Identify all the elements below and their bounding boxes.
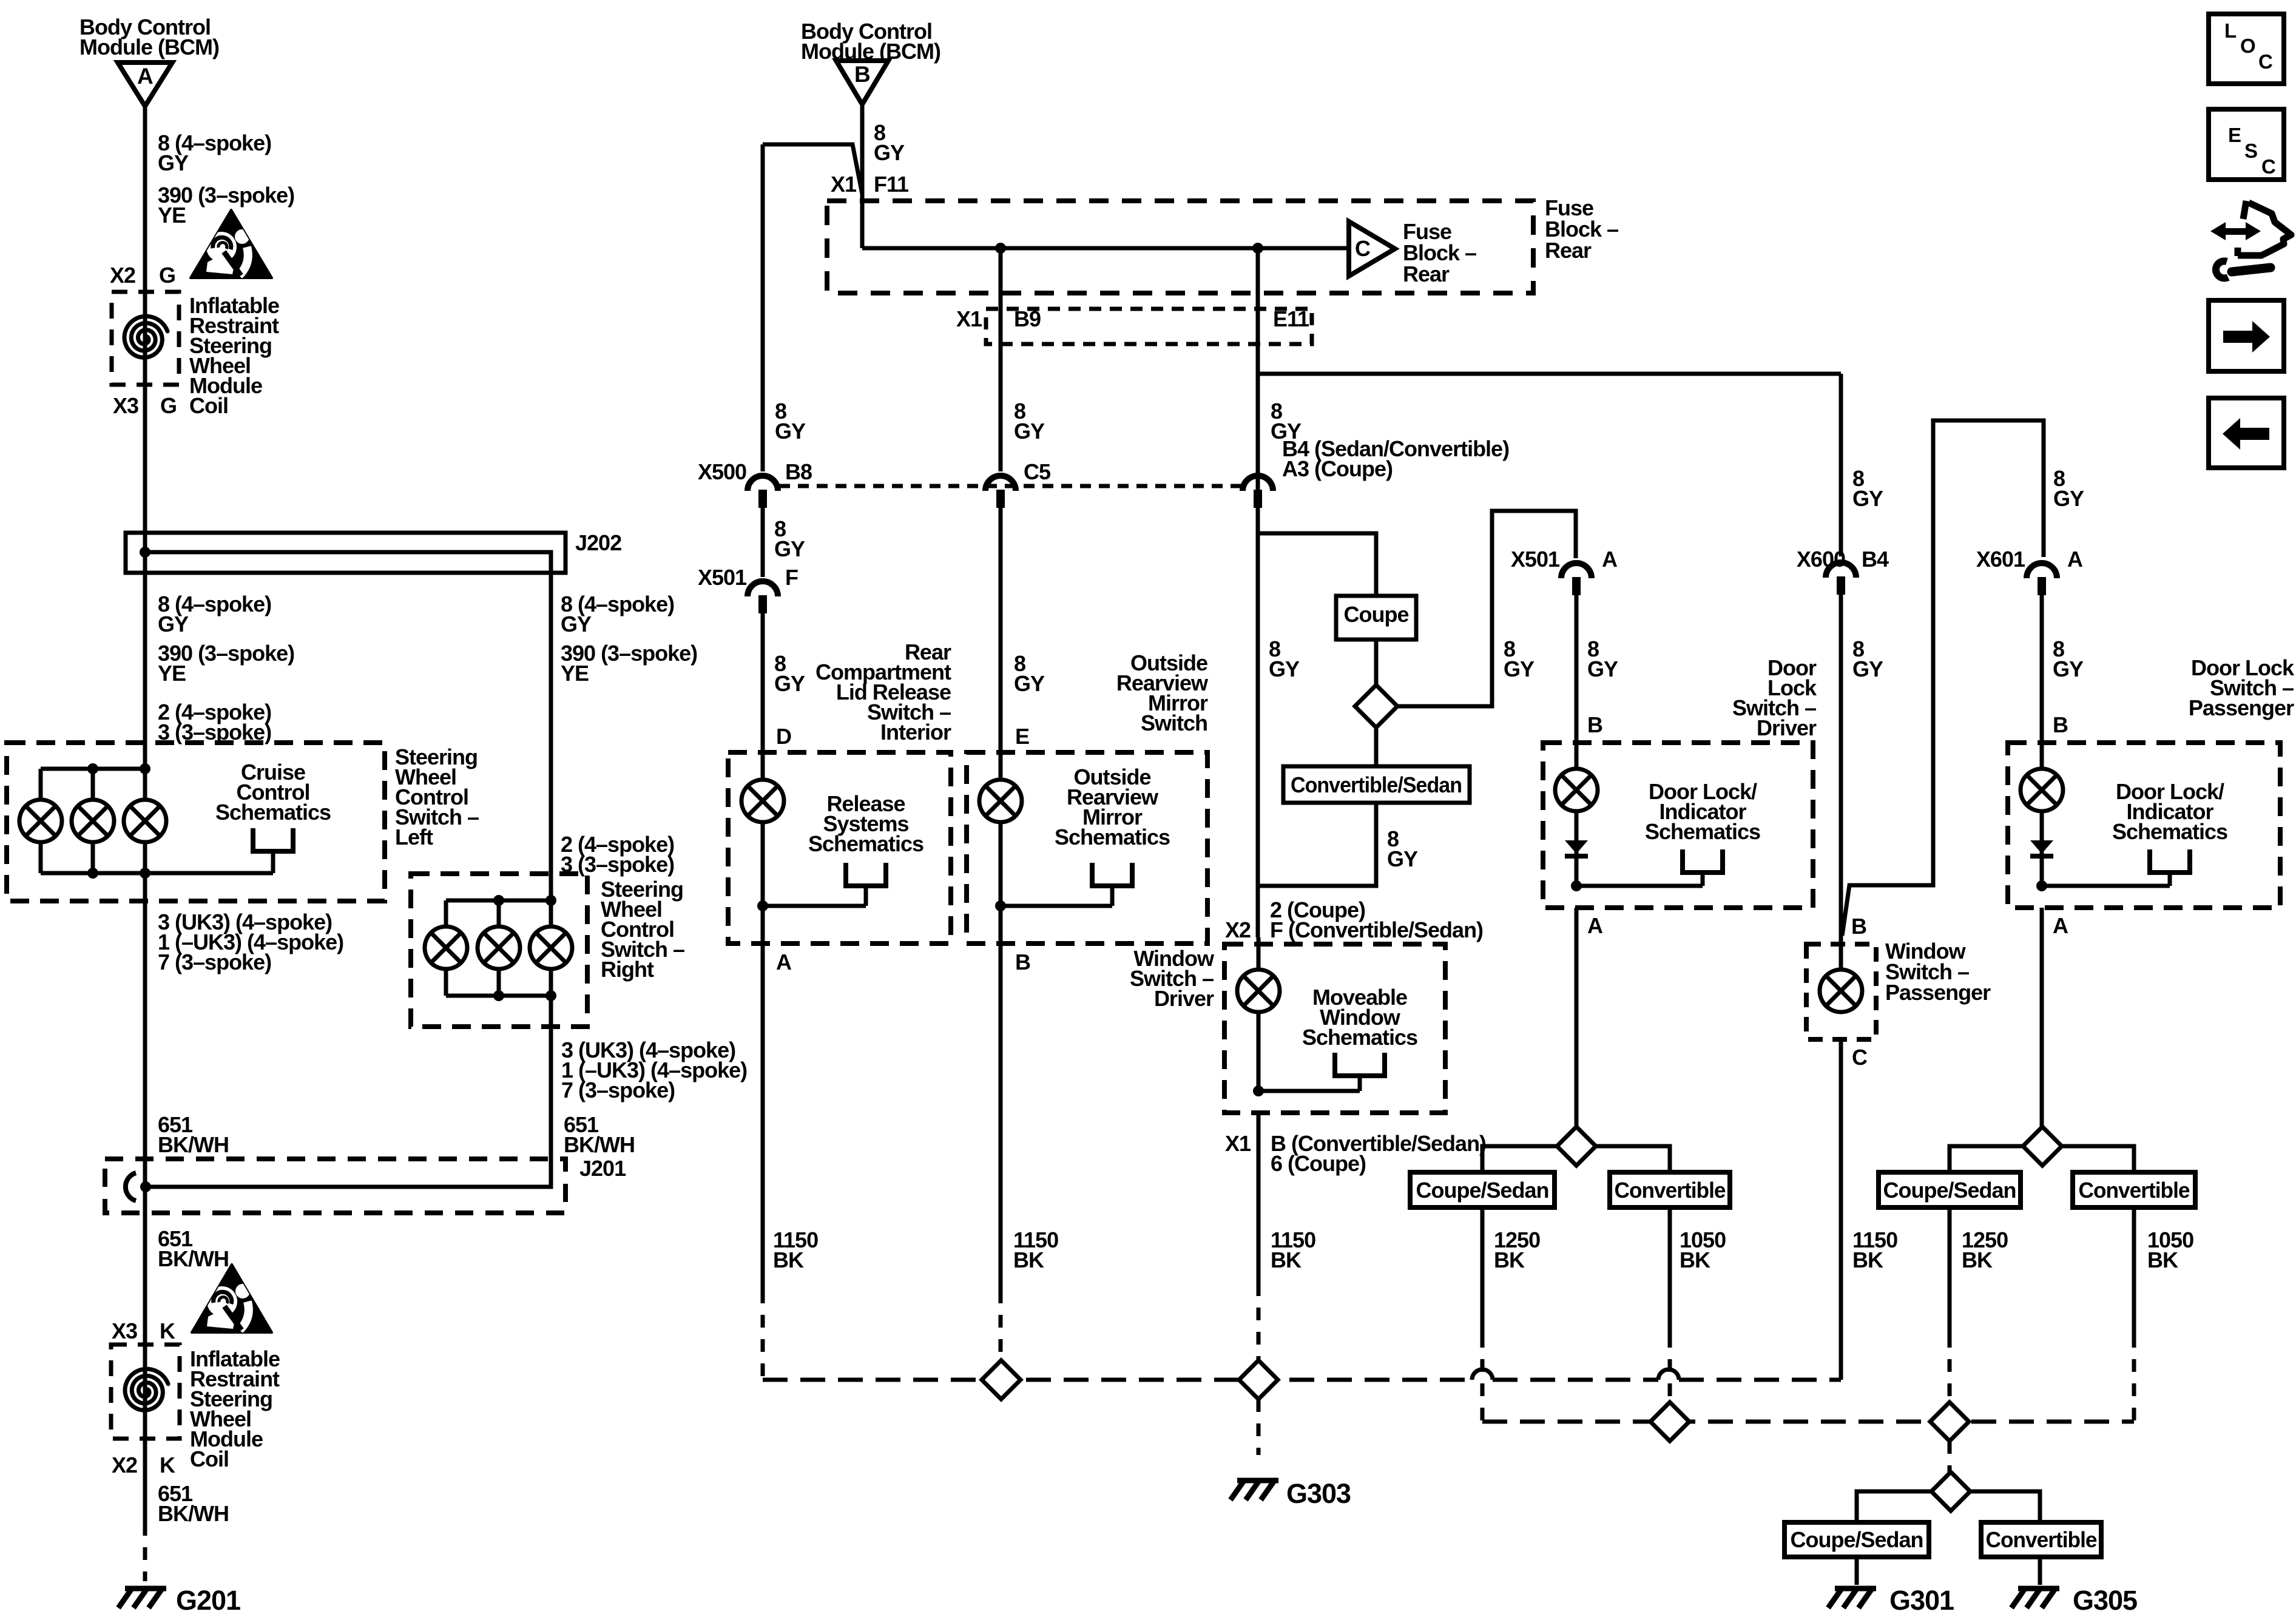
svg-text:X500: X500 <box>698 459 746 484</box>
svg-text:BK: BK <box>2147 1247 2178 1272</box>
svg-text:7 (3–spoke): 7 (3–spoke) <box>158 950 271 974</box>
svg-text:C: C <box>1355 236 1371 261</box>
svg-text:YE: YE <box>158 661 186 686</box>
svg-text:Rear: Rear <box>1545 238 1592 263</box>
svg-text:Coupe/Sedan: Coupe/Sedan <box>1883 1178 2016 1203</box>
svg-text:C: C <box>1852 1045 1868 1070</box>
svg-text:BK/WH: BK/WH <box>158 1501 229 1526</box>
svg-text:BK/WH: BK/WH <box>158 1132 229 1157</box>
svg-text:Schematics: Schematics <box>1055 825 1170 849</box>
svg-text:Coupe/Sedan: Coupe/Sedan <box>1790 1527 1923 1552</box>
svg-text:GY: GY <box>1852 657 1883 681</box>
svg-text:K: K <box>160 1453 175 1477</box>
svg-text:GY: GY <box>2053 657 2084 681</box>
svg-text:B9: B9 <box>1014 306 1041 331</box>
svg-text:Convertible/Sedan: Convertible/Sedan <box>1291 772 1462 797</box>
svg-text:GY: GY <box>774 536 805 561</box>
svg-text:X501: X501 <box>698 565 747 590</box>
svg-text:GY: GY <box>1852 486 1883 511</box>
svg-text:F11: F11 <box>874 172 909 197</box>
svg-text:GY: GY <box>1504 657 1535 681</box>
svg-text:G305: G305 <box>2073 1585 2137 1616</box>
svg-text:Coil: Coil <box>189 393 228 418</box>
svg-text:X2: X2 <box>1225 917 1251 942</box>
svg-text:BK: BK <box>1494 1247 1525 1272</box>
svg-text:BK: BK <box>1962 1247 1993 1272</box>
svg-text:GY: GY <box>874 140 905 165</box>
svg-text:B: B <box>1851 914 1866 939</box>
svg-text:BK: BK <box>1013 1247 1044 1272</box>
svg-text:X1: X1 <box>1225 1131 1251 1156</box>
svg-text:L: L <box>2224 19 2237 42</box>
svg-text:G303: G303 <box>1286 1478 1351 1509</box>
svg-text:G201: G201 <box>176 1585 240 1616</box>
svg-text:A3 (Coupe): A3 (Coupe) <box>1282 456 1393 481</box>
svg-text:B: B <box>1587 712 1602 737</box>
svg-text:X1: X1 <box>831 172 857 197</box>
svg-text:C: C <box>2258 50 2272 73</box>
svg-text:BK/WH: BK/WH <box>158 1246 229 1271</box>
svg-text:A: A <box>776 950 792 974</box>
svg-text:B: B <box>854 62 870 87</box>
svg-text:Interior: Interior <box>880 720 951 744</box>
svg-text:X3: X3 <box>113 393 138 418</box>
svg-text:Schematics: Schematics <box>1302 1025 1417 1050</box>
svg-text:GY: GY <box>1387 846 1418 871</box>
svg-text:BK: BK <box>1271 1247 1302 1272</box>
svg-text:B8: B8 <box>785 459 812 484</box>
svg-text:BK: BK <box>1852 1247 1883 1272</box>
svg-text:Schematics: Schematics <box>2112 819 2227 844</box>
svg-text:A: A <box>1602 547 1618 572</box>
svg-text:G301: G301 <box>1889 1585 1954 1616</box>
svg-text:A: A <box>137 64 153 89</box>
svg-text:Convertible: Convertible <box>1615 1178 1726 1203</box>
svg-text:Driver: Driver <box>1757 715 1817 740</box>
svg-text:K: K <box>160 1318 175 1343</box>
svg-text:6 (Coupe): 6 (Coupe) <box>1271 1151 1366 1176</box>
svg-text:F: F <box>785 565 798 590</box>
svg-text:BK: BK <box>1680 1247 1710 1272</box>
svg-text:F (Convertible/Sedan): F (Convertible/Sedan) <box>1270 917 1483 942</box>
svg-text:X3: X3 <box>112 1318 137 1343</box>
svg-text:Rear: Rear <box>1403 262 1450 286</box>
svg-text:Switch: Switch <box>1141 711 1207 735</box>
svg-text:A: A <box>2067 547 2083 572</box>
svg-text:E: E <box>1015 724 1029 749</box>
svg-text:Passenger: Passenger <box>1885 980 1991 1005</box>
svg-text:X2: X2 <box>110 263 135 288</box>
svg-text:GY: GY <box>158 612 189 636</box>
svg-text:YE: YE <box>158 203 186 228</box>
svg-text:GY: GY <box>1587 657 1618 681</box>
svg-text:7 (3–spoke): 7 (3–spoke) <box>561 1078 675 1102</box>
svg-text:D: D <box>776 724 791 749</box>
svg-text:GY: GY <box>774 671 805 696</box>
svg-text:GY: GY <box>1269 657 1300 681</box>
svg-text:Coupe: Coupe <box>1344 602 1409 627</box>
svg-text:Schematics: Schematics <box>215 800 331 825</box>
svg-text:Convertible: Convertible <box>2079 1178 2190 1203</box>
svg-text:Convertible: Convertible <box>1986 1527 2097 1552</box>
svg-text:BK: BK <box>773 1247 804 1272</box>
svg-text:Schematics: Schematics <box>1645 819 1760 844</box>
svg-text:Left: Left <box>395 825 433 849</box>
svg-text:Coupe/Sedan: Coupe/Sedan <box>1416 1178 1548 1203</box>
svg-text:C5: C5 <box>1024 459 1051 484</box>
svg-text:J202: J202 <box>575 530 621 555</box>
svg-text:X501: X501 <box>1511 547 1560 572</box>
svg-text:X600: X600 <box>1797 547 1845 572</box>
svg-text:GY: GY <box>561 612 592 636</box>
svg-text:Right: Right <box>601 957 654 982</box>
svg-text:G: G <box>159 263 175 288</box>
svg-text:B: B <box>2053 712 2068 737</box>
svg-text:X601: X601 <box>1976 547 2025 572</box>
svg-text:GY: GY <box>1014 419 1045 444</box>
svg-text:E: E <box>2228 124 2241 146</box>
svg-text:S: S <box>2244 140 2257 162</box>
svg-text:Coil: Coil <box>190 1447 229 1471</box>
svg-text:X1: X1 <box>956 306 982 331</box>
svg-text:B4: B4 <box>1862 547 1889 572</box>
svg-text:GY: GY <box>775 419 806 444</box>
svg-text:Driver: Driver <box>1154 986 1214 1011</box>
svg-text:Schematics: Schematics <box>808 831 923 856</box>
svg-text:Module (BCM): Module (BCM) <box>79 35 219 59</box>
svg-text:A: A <box>2053 913 2068 938</box>
svg-text:GY: GY <box>2053 486 2084 511</box>
svg-text:GY: GY <box>158 150 189 175</box>
svg-text:G: G <box>160 393 177 418</box>
svg-text:B: B <box>1015 950 1030 974</box>
svg-text:Passenger: Passenger <box>2189 695 2294 720</box>
svg-text:YE: YE <box>561 661 589 686</box>
svg-text:C: C <box>2261 155 2275 178</box>
svg-text:J201: J201 <box>579 1156 626 1181</box>
svg-text:BK/WH: BK/WH <box>564 1132 635 1157</box>
svg-text:A: A <box>1587 913 1603 938</box>
svg-text:GY: GY <box>1014 671 1045 696</box>
svg-text:O: O <box>2240 35 2255 57</box>
svg-text:X2: X2 <box>112 1453 137 1477</box>
svg-text:E11: E11 <box>1273 306 1309 331</box>
